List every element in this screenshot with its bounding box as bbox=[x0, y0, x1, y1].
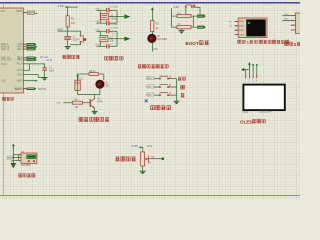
net label PA4 bbox=[7, 156, 12, 160]
power arrow buzzer bbox=[76, 74, 79, 80]
svg-text:VBAT: VBAT bbox=[17, 80, 23, 83]
wire trunk boot bbox=[192, 16, 194, 27]
caption 煤气调节 bbox=[116, 157, 136, 161]
wire R4b to label bbox=[191, 26, 197, 28]
resistor R6 bbox=[89, 70, 98, 76]
caption 加 bbox=[181, 85, 185, 89]
key trunk wire bbox=[176, 79, 178, 101]
svg-text:R2: R2 bbox=[71, 16, 75, 20]
svg-text:x2_in: x2_in bbox=[45, 58, 53, 62]
wire R5 to D3 bbox=[151, 32, 153, 35]
capacitor C3 bbox=[42, 67, 54, 73]
caption 复位电路 bbox=[62, 55, 79, 59]
pin PA10 net label bbox=[23, 45, 37, 48]
ground pot bbox=[140, 171, 146, 174]
no-connect marker bbox=[112, 33, 115, 36]
virtual terminal VT1 bbox=[238, 18, 267, 38]
temp pin stubs bbox=[18, 155, 21, 161]
virtual terminal VT2 partial bbox=[291, 13, 302, 33]
microcontroller U1 bbox=[0, 8, 23, 93]
svg-text:OSC_OUT: OSC_OUT bbox=[1, 60, 13, 62]
ground Q1 bbox=[92, 111, 98, 114]
wire wiper bbox=[148, 155, 164, 160]
pin VBAT wire bbox=[23, 80, 38, 82]
capacitor C6 bbox=[107, 28, 119, 34]
sheet background bbox=[0, 0, 300, 200]
svg-text:NRST: NRST bbox=[28, 13, 35, 15]
wire to boot ground bbox=[181, 29, 183, 31]
LED D2 bbox=[96, 74, 110, 88]
svg-text:NRST: NRST bbox=[57, 28, 64, 31]
origin marker blue cross bbox=[145, 99, 148, 102]
caption 声光报警电路 bbox=[79, 117, 109, 121]
wire 3.3V to R2 bbox=[67, 7, 69, 16]
crystal X2 bbox=[101, 14, 118, 21]
wire base bbox=[56, 103, 90, 105]
svg-text:BOOT: BOOT bbox=[15, 89, 22, 91]
net label BOOT0 row1 bbox=[197, 15, 206, 18]
svg-text:PC15: PC15 bbox=[17, 70, 23, 72]
OLED power arrow up bbox=[248, 62, 251, 68]
svg-text:PA8: PA8 bbox=[154, 48, 159, 51]
pin PB10 net label bbox=[23, 56, 36, 59]
wire pot to ground bbox=[142, 166, 144, 171]
svg-text:AF1: AF1 bbox=[1, 10, 6, 13]
caption OLED显示屏 bbox=[240, 119, 266, 124]
svg-text:PC14: PC14 bbox=[17, 64, 23, 66]
caption 程序运行指示灯 bbox=[138, 65, 169, 69]
BOOT jumper button bbox=[185, 5, 195, 15]
wire PC13 bbox=[23, 75, 44, 78]
caption 减 bbox=[181, 94, 185, 98]
svg-text:100nF: 100nF bbox=[72, 39, 79, 42]
pin PA11 net label bbox=[23, 48, 36, 51]
transistor Q1 bbox=[90, 97, 103, 108]
resistor R4 bbox=[72, 99, 82, 109]
svg-text:3.3V: 3.3V bbox=[132, 144, 138, 148]
wire buzzer rail bbox=[78, 74, 104, 80]
temp module wires bbox=[12, 155, 18, 161]
svg-text:8MHz: 8MHz bbox=[110, 17, 117, 20]
capacitor C1 bbox=[64, 36, 80, 42]
push button KEY1 bbox=[159, 75, 170, 79]
wire R2 to C1 bbox=[67, 27, 69, 37]
resistor R2 bbox=[66, 16, 76, 27]
caption 独立按键 bbox=[151, 106, 171, 110]
wire D3 down bbox=[152, 43, 158, 52]
wire C3 to ground bbox=[44, 70, 46, 77]
wire C1 to ground bbox=[67, 39, 69, 46]
power label 3.3V reset bbox=[58, 4, 78, 8]
svg-text:30pF: 30pF bbox=[49, 70, 55, 73]
temp sensor U2 DS18B20 bbox=[21, 152, 37, 167]
svg-text:PC14: PC14 bbox=[1, 64, 7, 66]
ground boot bbox=[179, 31, 185, 34]
VT1 pin stubs bbox=[229, 21, 238, 34]
resistor R4b bbox=[172, 23, 192, 29]
svg-text:3.3V: 3.3V bbox=[58, 4, 64, 8]
temp ground arrow bbox=[11, 158, 17, 168]
wire boot top bbox=[193, 7, 200, 14]
power label 3.3V boot bbox=[172, 5, 181, 27]
crystal X3 bbox=[100, 36, 114, 43]
caption 晶振电路 bbox=[105, 56, 124, 60]
capacitor C7 bbox=[107, 44, 114, 49]
wire to R5 bbox=[151, 13, 153, 20]
caption 串口1窗口（模拟手机端） bbox=[238, 40, 289, 45]
resistor R3 bbox=[172, 12, 192, 18]
key row2 wire bbox=[147, 85, 177, 89]
wire to C3 bbox=[30, 64, 45, 68]
wire to reset button bbox=[68, 31, 81, 45]
bus arrow X2 bbox=[124, 14, 130, 19]
svg-text:PA11: PA11 bbox=[17, 48, 23, 51]
svg-text:RXD: RXD bbox=[239, 21, 244, 23]
svg-text:C5 20pF: C5 20pF bbox=[110, 24, 119, 26]
net label BOOT1 row2 bbox=[197, 26, 206, 29]
potentiometer RV1 bbox=[141, 145, 153, 166]
ground reset bbox=[65, 47, 71, 50]
OLED pin wires bbox=[245, 63, 258, 82]
VT2 wires bbox=[282, 14, 290, 21]
pin PA9 net label bbox=[23, 43, 36, 46]
resistor R5 bbox=[151, 21, 160, 32]
node NRST wire bbox=[57, 28, 68, 31]
ground near C3 bbox=[42, 78, 48, 81]
svg-text:VSS: VSS bbox=[1, 81, 6, 83]
svg-text:LCD1: LCD1 bbox=[243, 112, 250, 114]
pin 1 NRST stub bbox=[23, 11, 38, 15]
svg-text:NRST: NRST bbox=[16, 10, 23, 13]
OLED power arrow left bbox=[241, 68, 249, 72]
ground keys bbox=[174, 101, 180, 104]
wire R3 to label bbox=[191, 15, 197, 17]
buzzer BUZ1 bbox=[75, 79, 84, 91]
svg-text:PC13: PC13 bbox=[17, 74, 23, 76]
pin PB11 net label bbox=[23, 59, 36, 62]
capacitor C4 bbox=[107, 7, 119, 13]
temp trunk wire bbox=[12, 145, 14, 159]
power label 3.3V pot bbox=[132, 144, 143, 152]
svg-text:DS18B20: DS18B20 bbox=[21, 165, 32, 167]
svg-text:OLED12864: OLED12864 bbox=[259, 111, 272, 113]
push button KEY3 bbox=[159, 92, 170, 96]
svg-text:RTS: RTS bbox=[239, 30, 244, 32]
svg-text:LED-RED: LED-RED bbox=[157, 39, 167, 41]
svg-text:10k: 10k bbox=[71, 21, 76, 25]
wire collector node bbox=[78, 88, 100, 99]
wire PC14 loop bbox=[23, 64, 29, 70]
bus arrow X3 bbox=[124, 37, 130, 42]
svg-text:BOOT: BOOT bbox=[185, 41, 198, 46]
svg-text:C4 20pF: C4 20pF bbox=[110, 7, 119, 9]
svg-text:RV1: RV1 bbox=[147, 145, 152, 148]
crystal block 2 wires bbox=[96, 29, 125, 46]
svg-text:C6 20pF: C6 20pF bbox=[110, 28, 119, 30]
caption 设置 bbox=[178, 77, 186, 80]
push button reset bbox=[80, 35, 87, 43]
svg-text:CTS: CTS bbox=[239, 34, 244, 36]
OLED display LCD1 bbox=[243, 85, 285, 114]
pin BOOT0 net label bbox=[23, 87, 46, 91]
svg-text:PB11: PB11 bbox=[17, 60, 23, 62]
svg-text:R5: R5 bbox=[155, 21, 159, 25]
LED D3 bbox=[148, 34, 168, 42]
capacitor C5 bbox=[107, 21, 119, 26]
caption 主芯片 bbox=[2, 97, 13, 100]
caption 测温模块 bbox=[19, 174, 35, 177]
svg-text:NPN: NPN bbox=[97, 101, 102, 104]
svg-text:OLED: OLED bbox=[240, 119, 253, 124]
svg-text:PA11_R: PA11_R bbox=[1, 48, 10, 51]
push button KEY2 bbox=[159, 84, 170, 88]
power arrow temp bbox=[12, 144, 15, 150]
svg-text:TXD: TXD bbox=[239, 26, 244, 28]
caption BOOT电路 bbox=[185, 41, 208, 47]
key row3 wire bbox=[147, 93, 177, 97]
wire emitter bbox=[94, 108, 96, 111]
svg-text:BOOT0: BOOT0 bbox=[38, 88, 47, 91]
crystal block 1 wires bbox=[96, 8, 125, 23]
key row1 wire bbox=[147, 76, 177, 80]
power arrow D3 bbox=[151, 7, 154, 13]
caption 串口2窗口 bbox=[285, 42, 301, 47]
svg-text:LED: LED bbox=[105, 86, 110, 88]
